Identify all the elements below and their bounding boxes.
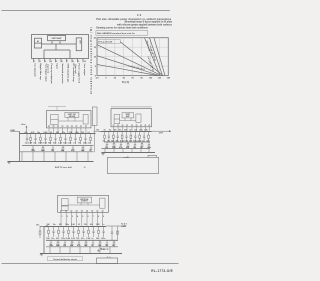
U1 pin 6 — [71, 125, 73, 133]
svg-text:Ptot max. allowable power diss: Ptot max. allowable power dissipation vs… — [96, 18, 171, 21]
resistor R3 560 — [50, 134, 52, 145]
U1 internal wires — [59, 117, 84, 121]
svg-text:Derating curves for various he: Derating curves for various heat sink co… — [96, 27, 148, 30]
node input junction / wire down — [19, 131, 21, 161]
svg-text:1u: 1u — [25, 143, 27, 145]
U1 pin 3 — [57, 125, 59, 133]
U2 pin 5 — [131, 125, 132, 132]
resistor R6 1K — [80, 134, 82, 145]
ground symbol near yoke box — [97, 249, 100, 252]
pin 2 stub of block diagram — [38, 59, 40, 63]
capacitor C40 10u — [52, 227, 54, 238]
svg-text:0.1: 0.1 — [88, 132, 90, 134]
resistor R9 470 — [62, 146, 64, 152]
U2 pin 1 — [113, 125, 114, 132]
capacitor C6 220u — [84, 134, 86, 145]
wire top bus circuit 1 — [20, 133, 96, 135]
U2 internal block A — [114, 115, 120, 124]
wires to ground circuit 2 — [104, 149, 106, 153]
svg-text:Input: Input — [56, 64, 59, 70]
capacitor C7 100u — [32, 146, 34, 152]
resistor R45 560 — [98, 227, 100, 238]
pin 10 stub of block diagram — [82, 59, 84, 63]
svg-text:Sawtooth generator: Sawtooth generator — [61, 64, 64, 84]
wire input underline — [10, 130, 19, 132]
resistor R4 2.2K — [60, 134, 62, 145]
wire top bus circuit 2 — [102, 131, 152, 133]
svg-text:47u: 47u — [53, 142, 56, 145]
capacitor C45 220u — [102, 227, 104, 238]
resistor R44 2.2K — [88, 227, 90, 238]
capacitor C42 0.02 — [72, 227, 74, 238]
svg-text:47u: 47u — [25, 131, 28, 134]
svg-text:0.1u: 0.1u — [101, 249, 105, 251]
wire mid rail circuit 3 — [46, 239, 118, 241]
heat sink outline box — [108, 155, 159, 173]
svg-text:33: 33 — [88, 143, 90, 145]
capacitor C20 10u — [108, 132, 110, 142]
svg-text:6: 6 — [88, 216, 89, 218]
svg-text:120: 120 — [76, 238, 79, 240]
svg-text:0.1: 0.1 — [73, 143, 76, 145]
svg-text:DC feedback loop: DC feedback loop — [72, 64, 74, 83]
ground circuit 3 — [40, 254, 44, 256]
svg-text:220u: 220u — [101, 238, 105, 240]
svg-text:Mounting torque 6 kg-cm applie: Mounting torque 6 kg-cm applied on Al pl… — [125, 21, 173, 24]
svg-text:10u: 10u — [33, 143, 36, 145]
capacitor C3 47u — [54, 134, 56, 145]
capacitor C41 100u — [62, 227, 64, 238]
capacitor C2 0.02 — [44, 134, 46, 145]
resistor R23 120 — [130, 132, 132, 142]
U3 internal block B — [61, 206, 68, 210]
deflection yoke box — [97, 258, 118, 264]
U2 pin 3 — [122, 125, 123, 132]
U3 pin 8 — [97, 210, 99, 226]
U1 pin 5 — [67, 125, 69, 133]
block diagram outer box U0 — [32, 35, 89, 59]
resistor R42 5.6K — [68, 227, 70, 238]
pin 8 stub of block diagram — [71, 59, 73, 63]
svg-text:3: 3 — [72, 216, 73, 218]
svg-text:GND substrate pin: GND substrate pin — [67, 64, 70, 83]
svg-text:0.02: 0.02 — [43, 143, 47, 145]
capacitor C0 1u — [26, 134, 28, 145]
resistor R26 5.6K — [113, 142, 115, 149]
block vertical amp — [48, 35, 66, 40]
resistor R41 470 — [58, 227, 60, 238]
svg-text:(bias set): (bias set) — [74, 65, 77, 74]
wire lower rail circuit 1 — [20, 151, 94, 153]
resistor R50 1K — [113, 240, 115, 247]
U2 pin 6 — [136, 125, 137, 132]
U1 pin 2 — [53, 125, 55, 133]
derating curve 7 — [154, 38, 165, 76]
output wire circuit 3 with arrow — [106, 225, 127, 227]
U3 pin 7 — [91, 210, 93, 226]
svg-text:470: 470 — [56, 237, 59, 240]
derating curve 6 — [150, 38, 163, 76]
capacitor C21 47u — [117, 132, 119, 142]
wires to ground circuit 1 — [21, 152, 23, 162]
derating curve 1 — [97, 45, 162, 76]
wire input drop circuit 3 — [43, 227, 45, 254]
capacitor C5 0.1 — [74, 134, 76, 145]
svg-text:0.02: 0.02 — [71, 238, 75, 240]
capacitor C26 4.7u — [120, 142, 122, 149]
U2 pin 4 — [126, 125, 127, 132]
svg-text:120: 120 — [68, 143, 71, 145]
pin 5 stub of block diagram — [55, 59, 57, 63]
wire rail above U1 — [48, 106, 66, 110]
svg-text:OUTPUT: OUTPUT — [81, 201, 89, 203]
U1 internal block B — [65, 112, 79, 117]
resistor R47 470 — [71, 240, 73, 247]
graph header boxed condition — [96, 31, 148, 36]
U3 internal wires — [68, 203, 100, 205]
U2 internal block B — [122, 113, 134, 118]
resistor R27 470 — [127, 142, 129, 149]
resistor R49 120 — [99, 240, 101, 247]
resistor R5 120 — [70, 134, 72, 145]
svg-text:100u: 100u — [75, 132, 79, 134]
pin 7 stub of block diagram — [66, 59, 68, 63]
svg-text:120: 120 — [81, 132, 84, 134]
U1 internal block C — [83, 115, 88, 125]
svg-text:2: 2 — [67, 216, 68, 218]
U2 internal wires — [120, 118, 136, 121]
capacitor C48 4.7u — [78, 240, 80, 247]
U1 pin 8 — [80, 125, 82, 133]
svg-text:47u: 47u — [62, 131, 65, 134]
U1 pin 1 — [48, 125, 50, 133]
U3 pin 2 — [65, 210, 67, 226]
capacitor C50 10u — [106, 240, 108, 247]
svg-text:1u: 1u — [102, 224, 104, 226]
graph grid — [97, 38, 168, 76]
svg-text:100u: 100u — [65, 224, 69, 226]
wire T1 to circuit 2 input — [93, 126, 99, 153]
svg-text:47u: 47u — [81, 237, 84, 240]
svg-text:A1: A1 — [37, 40, 39, 43]
svg-text:1 4: 1 4 — [137, 13, 142, 17]
wire rail above U2 — [111, 106, 152, 108]
derating curve 2 — [97, 56, 160, 76]
caption box circuit 3 — [48, 257, 83, 261]
svg-text:Allowable power dissipation Pt: Allowable power dissipation Ptot (W) — [90, 27, 93, 94]
svg-text:100u: 100u — [63, 143, 67, 145]
resistor R25 470 — [148, 132, 150, 142]
svg-text:470: 470 — [59, 223, 62, 226]
pin 1 stub of block diagram — [33, 59, 35, 63]
wire mid rail circuit 2 — [104, 141, 150, 143]
wire ground bus circuit 2 — [102, 152, 156, 154]
graph annotation box theta j-a — [97, 40, 120, 44]
U3 pin 6 — [86, 210, 88, 226]
derating curve 3 — [97, 64, 158, 75]
ground circuit 1 — [7, 162, 11, 164]
wire mid rail circuit 1 — [22, 145, 94, 147]
op-amp IC U2 outline — [111, 109, 152, 127]
wire ground bus circuit 3 — [40, 253, 122, 255]
svg-text:47u: 47u — [90, 223, 93, 226]
coupling capacitor C39 input circuit 3 — [47, 225, 48, 227]
U3 internal block A — [61, 199, 68, 206]
svg-text:120: 120 — [84, 224, 87, 226]
resistor R2 100K — [40, 134, 42, 145]
svg-text:Vertical deflection circuit: Vertical deflection circuit — [53, 258, 77, 261]
U1 pin 9 — [85, 125, 87, 133]
U1 internal block A — [51, 115, 59, 125]
capacitor C27 10u — [134, 142, 136, 149]
U1 pin 7 — [76, 125, 78, 133]
svg-text:a = 25: a = 25 — [124, 157, 129, 159]
resistor R20 1K — [104, 132, 106, 142]
svg-text:1u: 1u — [91, 238, 93, 240]
capacitor C23 100u — [134, 132, 136, 142]
capacitor C10 1u — [90, 146, 92, 152]
wires to ground circuit 3 — [49, 247, 51, 254]
svg-text:10u: 10u — [37, 132, 40, 134]
svg-text:560: 560 — [48, 143, 51, 145]
derating curve 5 — [145, 38, 161, 76]
resistor R43 120 — [78, 227, 80, 238]
capacitor C25 33u — [106, 142, 108, 149]
right branch components circuit 3 — [111, 226, 119, 241]
svg-text:5: 5 — [82, 216, 83, 218]
wire input circuit 2 — [100, 131, 112, 133]
capacitor C1 10u — [34, 134, 36, 145]
svg-text:Power supply Vcc2: Power supply Vcc2 — [78, 64, 80, 84]
svg-text:120: 120 — [134, 129, 137, 131]
svg-text:.02: .02 — [129, 129, 131, 131]
resistor R24 2.2K — [139, 132, 141, 142]
capacitor C49 1u — [92, 240, 94, 247]
wire input circuit 3 — [40, 226, 58, 228]
block output stage — [76, 38, 82, 51]
resistor R46 5.6K — [57, 240, 59, 247]
svg-text:220u: 220u — [83, 143, 87, 145]
graph frame — [97, 38, 168, 76]
wire lower rail circuit 2 — [102, 148, 151, 150]
wire block interconnect — [42, 41, 77, 59]
block pre-amp — [35, 38, 42, 48]
svg-text:Vert. output: Vert. output — [83, 64, 86, 76]
resistor R40 10K — [48, 227, 50, 238]
capacitor C4 100u — [64, 134, 66, 145]
svg-text:1: 1 — [62, 216, 63, 218]
svg-text:100u: 100u — [61, 238, 65, 240]
svg-text:.02: .02 — [50, 132, 52, 134]
capacitor C43 47u — [82, 227, 84, 238]
wire top bus circuit 3 — [44, 226, 106, 228]
svg-text:Ripple filter cap: Ripple filter cap — [39, 64, 42, 81]
svg-text:9: 9 — [103, 216, 104, 218]
svg-text:560: 560 — [114, 129, 117, 131]
capacitor C47 33u — [64, 240, 66, 247]
U3 pin 4 — [76, 210, 78, 226]
svg-text:10u: 10u — [51, 238, 54, 240]
svg-text:Inv. input pin: Inv. input pin — [34, 64, 37, 78]
svg-text:7: 7 — [93, 216, 94, 218]
resistor R39 input shunt circuit 3 — [39, 226, 41, 238]
resistor R22 8.2K — [121, 132, 123, 142]
svg-text:+Vcc: +Vcc — [21, 124, 27, 126]
U3 pin 9 — [102, 210, 104, 226]
resistor R1 6.8K — [30, 134, 32, 145]
svg-text:Ta ( C): Ta ( C) — [122, 81, 129, 84]
resistor R21 560 — [112, 132, 114, 142]
svg-text:+26 V: +26 V — [121, 226, 127, 228]
svg-text:560: 560 — [96, 238, 99, 240]
U2 pin 2 — [117, 125, 118, 132]
svg-text:100u: 100u — [139, 129, 143, 131]
output coupling block T1 between circuits — [92, 107, 97, 126]
svg-text:4: 4 — [77, 215, 78, 218]
capacitor C24 1u — [143, 132, 145, 142]
svg-text:560: 560 — [56, 132, 59, 134]
U2 internal block C — [136, 114, 141, 122]
pin 9 stub of block diagram — [77, 59, 79, 63]
svg-text:10u: 10u — [109, 129, 112, 131]
output wire circuit 2 with arrow — [152, 130, 172, 132]
wire lower rail circuit 3 — [46, 246, 118, 248]
U1 pin 4 — [62, 125, 64, 133]
capacitor C46 100u — [50, 240, 52, 247]
resistor R28 1K — [141, 142, 143, 149]
U3 internal block C — [77, 197, 91, 203]
U2 pin 9 — [149, 125, 150, 132]
svg-text:8: 8 — [98, 216, 99, 218]
resistor R48 10K — [85, 240, 87, 247]
resistor R7 33 — [90, 134, 92, 145]
U3 pin 3 — [71, 210, 73, 226]
svg-text:10u: 10u — [53, 224, 56, 226]
svg-text:B-W TV vert. defl.: B-W TV vert. defl. — [55, 166, 73, 169]
op-amp IC U1 outline — [47, 111, 92, 128]
U2 pin 7 — [140, 125, 141, 132]
U3 internal block D — [100, 198, 105, 208]
svg-text:R th-ja 35 C/W: R th-ja 35 C/W — [98, 41, 112, 44]
pin 6 stub of block diagram — [60, 59, 62, 63]
svg-text:with silicone grease applied b: with silicone grease applied between bot… — [117, 23, 173, 26]
svg-text:Pump up output pin: Pump up output pin — [50, 64, 53, 85]
capacitor C44 1u — [92, 227, 94, 238]
resistor R8 5.6K — [42, 146, 44, 152]
resistor R10 10K — [82, 146, 84, 152]
svg-text:RL-1773-O/E: RL-1773-O/E — [151, 269, 173, 273]
wire ground bus circuit 1 — [8, 161, 94, 163]
capacitor C9 4.7u — [72, 146, 74, 152]
svg-text:(sync in): (sync in) — [47, 65, 49, 74]
pin 4 stub of block diagram — [49, 59, 51, 63]
pin 3 stub of block diagram — [44, 59, 46, 63]
op-amp IC U3 outline — [58, 195, 109, 212]
U3 pin 1 — [60, 210, 62, 226]
capacitor C28 100u — [148, 142, 150, 149]
U3 pin 5 — [81, 210, 83, 226]
ground circuit 2 — [101, 153, 105, 155]
capacitor C8 33u — [52, 146, 54, 152]
Vcc feed wire with arrow — [26, 126, 28, 134]
capacitor C22 0.02 — [125, 132, 127, 142]
derating curve 4 — [120, 42, 163, 76]
svg-text:.02: .02 — [78, 224, 80, 226]
U2 pin 8 — [145, 125, 146, 132]
svg-text:With SANKEN standard heat sink: With SANKEN standard heat sink fin — [97, 32, 135, 35]
svg-text:VERT AMP: VERT AMP — [51, 37, 62, 40]
svg-text:DRIVER: DRIVER — [69, 116, 76, 118]
